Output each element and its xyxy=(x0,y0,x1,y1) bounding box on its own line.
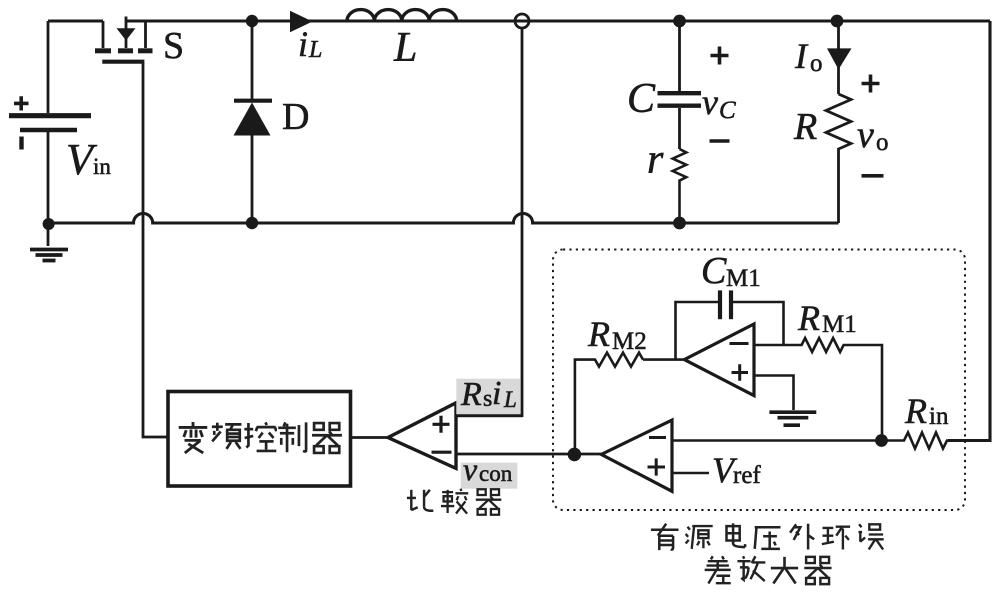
svg-text:R: R xyxy=(904,391,927,431)
svg-text:R: R xyxy=(460,376,482,413)
svg-text:C: C xyxy=(701,250,727,292)
svg-text:D: D xyxy=(282,96,309,138)
resistor r xyxy=(673,149,687,223)
svg-text:R: R xyxy=(797,298,820,338)
svg-text:C: C xyxy=(627,76,656,122)
plus vC xyxy=(711,47,729,65)
svg-text:i: i xyxy=(298,24,308,64)
node diode bottom xyxy=(246,217,258,229)
inductor L xyxy=(347,10,457,21)
resistor R_M1 xyxy=(754,338,882,441)
wire controller to comparator xyxy=(351,436,389,439)
label 有源电压外环误 (line 1) xyxy=(651,523,884,550)
wire gate down to controller xyxy=(143,63,168,437)
svg-text:R: R xyxy=(587,314,610,354)
svg-text:ref: ref xyxy=(733,462,761,489)
svg-text:v: v xyxy=(702,82,718,122)
ground (main) xyxy=(30,223,68,261)
capacitor C_M1 feedback xyxy=(676,302,719,360)
label 变频控制器 (controller box text) xyxy=(179,422,342,453)
controller box 变频控制器 xyxy=(168,392,351,487)
wire bottom rail with hops over gate wire and sense wire xyxy=(48,213,839,223)
plus vo xyxy=(862,75,880,93)
svg-text:R: R xyxy=(793,106,817,148)
minus vC xyxy=(710,139,730,143)
svg-text:M1: M1 xyxy=(726,265,761,292)
battery V_in xyxy=(9,21,91,223)
wire U1 plus to ground xyxy=(754,376,794,411)
svg-text:L: L xyxy=(503,387,517,412)
dashed box error amplifier xyxy=(553,250,965,511)
wire comparator minus to U2 output xyxy=(456,453,601,456)
label v_con (highlighted) xyxy=(461,463,518,489)
ground (op-amp) xyxy=(769,412,816,425)
wire top rail left (battery to MOSFET) xyxy=(48,19,103,22)
wire sense line down to comparator xyxy=(456,28,522,416)
svg-text:M1: M1 xyxy=(822,311,857,338)
wire right side drop to Rin xyxy=(948,21,990,441)
svg-text:S: S xyxy=(163,25,184,67)
svg-text:M2: M2 xyxy=(612,328,647,355)
svg-text:i: i xyxy=(492,375,501,412)
svg-text:o: o xyxy=(810,50,823,77)
svg-text:L: L xyxy=(393,25,417,71)
node U2 output xyxy=(568,448,582,462)
arrow i_L xyxy=(290,11,313,32)
svg-text:o: o xyxy=(876,129,889,156)
resistor R xyxy=(826,94,851,223)
op-amp U2 xyxy=(601,420,672,491)
minus vo xyxy=(862,174,884,178)
svg-text:con: con xyxy=(479,461,513,486)
wire top rail right (MOSFET to top-right corner) xyxy=(126,19,990,22)
wire comparator plus input xyxy=(456,414,522,417)
resistor R_M2 xyxy=(575,353,685,454)
op-amp comparator xyxy=(388,403,456,469)
svg-text:v: v xyxy=(857,114,874,156)
node sense (open circle) xyxy=(515,14,529,28)
resistor R_in xyxy=(882,433,949,449)
node inverting input xyxy=(875,434,888,447)
transistor S (MOSFET) xyxy=(95,17,153,62)
svg-text:L: L xyxy=(308,37,322,63)
svg-text:s: s xyxy=(483,386,492,412)
node battery-ground junction xyxy=(43,218,55,230)
svg-text:C: C xyxy=(719,97,736,124)
op-amp U1 xyxy=(684,324,754,396)
node load top xyxy=(831,15,844,28)
node diode top xyxy=(246,15,258,27)
svg-text:in: in xyxy=(93,154,111,179)
load R branch xyxy=(837,21,840,94)
label Rs iL (highlighted) xyxy=(456,379,520,417)
arrow I_o xyxy=(827,48,852,69)
svg-text:r: r xyxy=(647,137,664,183)
diode D xyxy=(251,21,254,99)
label 差放大器 (line 2) xyxy=(705,556,832,584)
svg-text:v: v xyxy=(463,451,478,487)
svg-text:in: in xyxy=(929,403,949,430)
wire U2 minus input xyxy=(672,439,882,442)
node C branch top xyxy=(673,15,686,28)
capacitor C branch xyxy=(678,21,681,91)
svg-text:I: I xyxy=(794,36,809,76)
node C branch bottom xyxy=(673,217,686,230)
wire U2 plus input xyxy=(672,472,709,475)
label 比较器 (comparator) xyxy=(407,489,501,515)
